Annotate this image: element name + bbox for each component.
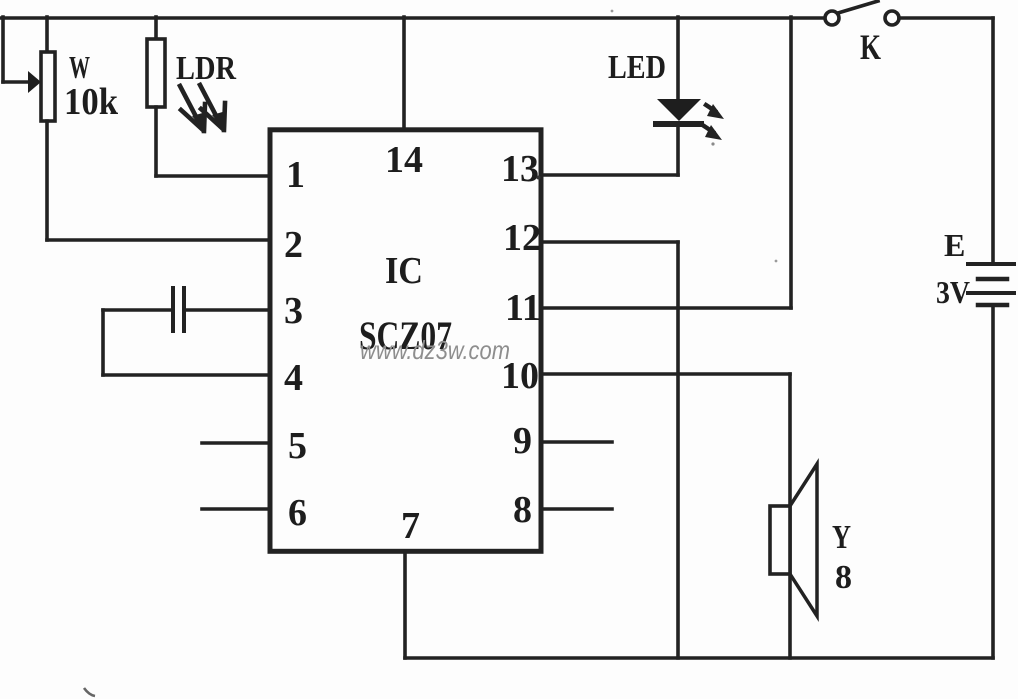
- wire pin 11 horizontal: [541, 306, 791, 310]
- LDR light arrow 1: [180, 86, 206, 131]
- svg-text:13: 13: [501, 148, 539, 190]
- wire pin 1 horizontal: [156, 174, 270, 178]
- svg-text:K: K: [860, 27, 881, 67]
- svg-text:12: 12: [503, 217, 541, 259]
- LED cathode bar: [656, 121, 701, 127]
- wire right vertical lower: [991, 307, 995, 658]
- LED triangle: [657, 99, 701, 121]
- svg-text:9: 9: [513, 420, 532, 462]
- wire pin 6 stub: [202, 507, 270, 511]
- LED light arrow 1: [706, 104, 724, 119]
- battery E plate short 4: [978, 303, 1007, 308]
- potentiometer W wiper arrowhead: [28, 71, 41, 93]
- wire top rail right segment: [899, 16, 993, 20]
- svg-text:10k: 10k: [64, 81, 119, 123]
- wire left vertical to wiper: [1, 17, 5, 82]
- stray scan mark bottom left: [84, 688, 95, 696]
- svg-text:4: 4: [284, 357, 303, 399]
- speaker Y magnet: [770, 506, 790, 574]
- svg-text:E: E: [944, 227, 965, 263]
- switch K right contact: [885, 11, 899, 25]
- svg-text:3: 3: [284, 290, 303, 332]
- wire pin 4 horizontal: [103, 373, 270, 377]
- svg-text:8: 8: [835, 559, 852, 596]
- wire pin 13 horizontal: [541, 173, 678, 177]
- wire pin 8 stub: [541, 507, 612, 511]
- svg-text:IC: IC: [385, 250, 423, 292]
- LDR light arrow 2: [200, 85, 226, 130]
- svg-text:www.dz3w.com: www.dz3w.com: [360, 335, 510, 365]
- wire LDR top lead: [154, 17, 158, 39]
- IC U1 SCZ07 box: [270, 130, 541, 552]
- wire speaker vertical: [788, 374, 792, 658]
- switch K left contact: [825, 11, 839, 25]
- wire pin 10 horizontal: [541, 372, 790, 376]
- svg-text:11: 11: [505, 287, 541, 329]
- wire capacitor left vertical: [101, 310, 105, 375]
- svg-text:1: 1: [286, 154, 305, 196]
- wire top rail left segment: [1, 16, 824, 20]
- switch K lever: [838, 1, 878, 13]
- svg-text:7: 7: [401, 505, 420, 547]
- wire wiper horizontal: [3, 80, 28, 84]
- wire pot bottom lead: [45, 121, 49, 240]
- wire pin 11 vertical up to rail: [789, 17, 793, 308]
- wire pin 12 vertical down: [676, 242, 680, 658]
- wire pot top lead: [45, 17, 49, 52]
- wire LED bottom lead: [676, 127, 680, 175]
- wire bottom rail: [405, 656, 993, 660]
- capacitor C1 plates: [173, 288, 184, 331]
- scan speck near battery column: [775, 260, 778, 263]
- LED light arrow 2: [704, 125, 722, 140]
- wire LDR bottom lead: [154, 107, 158, 176]
- svg-text:14: 14: [385, 139, 423, 181]
- svg-text:LDR: LDR: [176, 50, 236, 87]
- svg-text:W: W: [69, 49, 90, 85]
- battery E plate long top: [968, 262, 1014, 266]
- svg-text:2: 2: [284, 224, 303, 266]
- battery E plate long 3: [968, 291, 1014, 295]
- scan speck near LED top: [611, 10, 614, 13]
- speaker Y cone: [790, 464, 817, 616]
- wire pin 3 horizontal right part: [187, 308, 270, 312]
- wire pin 3 horizontal left part: [103, 308, 170, 312]
- svg-text:LED: LED: [608, 49, 666, 86]
- wire pin 14 lead: [402, 17, 406, 129]
- wire pin 12 horizontal: [541, 240, 678, 244]
- wire pin 7 lead: [403, 551, 407, 658]
- wire pin 5 stub: [202, 441, 270, 445]
- wire LED top lead: [676, 17, 680, 100]
- svg-text:5: 5: [288, 425, 307, 467]
- battery E plate short 2: [978, 277, 1007, 282]
- wire right vertical upper: [991, 18, 995, 262]
- wire pin 2 horizontal: [47, 238, 270, 242]
- svg-text:Y: Y: [832, 519, 851, 556]
- svg-text:3V: 3V: [936, 274, 970, 310]
- svg-text:8: 8: [513, 489, 532, 531]
- wire pin 9 stub: [541, 440, 612, 444]
- scan speck right of pin 13 wire: [711, 142, 714, 145]
- LDR body: [147, 39, 165, 107]
- potentiometer W 10k body: [41, 52, 55, 121]
- svg-text:6: 6: [288, 492, 307, 534]
